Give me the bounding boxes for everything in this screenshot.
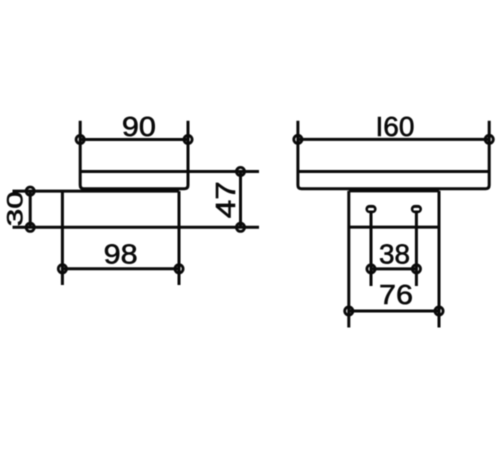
- svg-text:I60: I60: [376, 111, 415, 142]
- dim 38 line: [371, 267, 416, 270]
- dim 30 circle top: [26, 187, 34, 195]
- dim 76 circle left: [345, 307, 353, 315]
- dim 160 line: [298, 138, 489, 141]
- dim 38 circle right: [412, 265, 420, 273]
- front view: plate right edge / 98 extension: [178, 191, 181, 285]
- dim 98 circle right: [175, 265, 183, 273]
- dim 90 circle left: [76, 135, 84, 143]
- dim 90 line: [80, 138, 188, 141]
- slot left centerline / 38 extension: [370, 213, 373, 286]
- dim 30 circle bottom: [26, 223, 34, 231]
- dim 90 circle right: [184, 135, 192, 143]
- svg-text:90: 90: [122, 111, 156, 142]
- front view: wall plate top line: [13, 190, 180, 193]
- side view: plate top line: [349, 189, 439, 192]
- svg-text:76: 76: [379, 279, 413, 310]
- side view: dish body outline: [298, 121, 489, 189]
- dim 160 circle right: [485, 135, 493, 143]
- dim 98 line: [62, 267, 179, 270]
- dim 47 line: [239, 172, 242, 228]
- svg-text:30: 30: [2, 191, 27, 226]
- front view: dish body outline: [80, 121, 188, 189]
- dim 160 circle left: [294, 135, 302, 143]
- front view: dish inner line extended to 47 dim: [80, 170, 259, 173]
- dim 30 line: [29, 191, 32, 227]
- side view: keyhole slot left: [365, 205, 376, 213]
- dim 98 circle left: [58, 265, 66, 273]
- side view: keyhole slot right: [411, 205, 422, 213]
- dim 47 circle top: [236, 167, 244, 175]
- side view: plate mid line: [349, 226, 439, 229]
- side view: dish inner line: [298, 170, 489, 173]
- front view: plate left edge / 98 extension: [61, 191, 64, 285]
- dim 76 line: [349, 310, 439, 313]
- dim 38 circle left: [367, 265, 375, 273]
- dim 47 circle bottom: [236, 223, 244, 231]
- side view: plate left edge / 76 extension: [347, 191, 350, 328]
- slot right centerline / 38 extension: [415, 213, 418, 286]
- front view: wall plate bottom line extended: [13, 226, 260, 229]
- dim 76 circle right: [435, 307, 443, 315]
- svg-text:38: 38: [379, 239, 410, 270]
- svg-text:98: 98: [104, 239, 138, 270]
- side view: plate right edge / 76 extension: [438, 191, 441, 328]
- svg-text:47: 47: [210, 181, 241, 218]
